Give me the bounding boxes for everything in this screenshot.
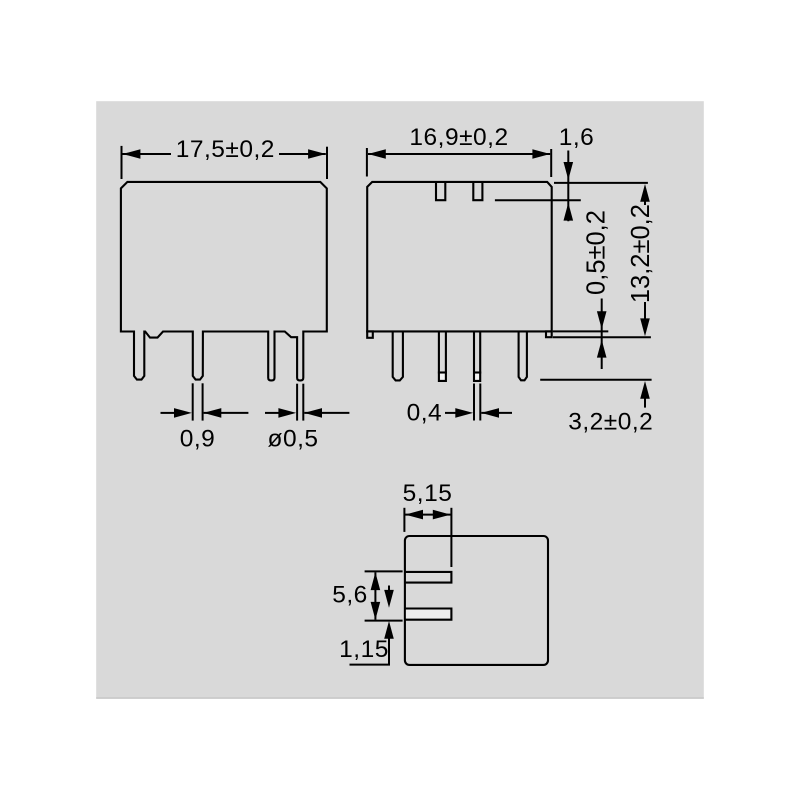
dimension 17,5±0,2 dimension line with arrows [123, 153, 172, 155]
svg-text:0,4: 0,4 [407, 400, 443, 427]
dimension 0,9 arrows and lines [161, 412, 176, 414]
body bottom reference line A extended right [553, 330, 609, 332]
side view pin 3 (flat tip with coin line) [475, 374, 479, 380]
side view left mounting foot [367, 331, 373, 337]
dimension 17,5±0,2 extension line left [121, 146, 123, 179]
side view relay body outline [367, 182, 552, 332]
side view right mounting foot [546, 331, 552, 337]
bottom view slot 2 (with light reflection) [406, 610, 450, 619]
dimension 16,9±0,2 extension line right [550, 149, 552, 177]
dimension 5,6 dimension line with arrows [374, 572, 376, 619]
svg-text:16,9±0,2: 16,9±0,2 [409, 124, 508, 151]
front view relay body outline [121, 182, 327, 381]
svg-text:0,5±0,2: 0,5±0,2 [583, 210, 611, 295]
side view top tab 2 [473, 182, 482, 200]
dimension 0,5±0,2 lower arrow pointing up to line B [597, 340, 607, 358]
tab bottom reference line [495, 199, 581, 201]
pin end reference line C extended right [540, 379, 651, 381]
dimension 1,6 lower arrow pointing up to tab bottom line [564, 203, 574, 221]
svg-text:1,6: 1,6 [559, 124, 595, 151]
bottom view body outline [405, 536, 548, 665]
pin thickness 0,4 extension lines [473, 384, 475, 421]
dimension 1,15 lower arrow pointing up to slot 2 bottom [384, 621, 394, 639]
dimension 1,15 leader line [350, 664, 391, 666]
standoff bottom reference line B extended right [553, 336, 651, 338]
svg-text:13,2±0,2: 13,2±0,2 [627, 204, 655, 303]
svg-text:5,6: 5,6 [332, 582, 368, 609]
svg-text:1,15: 1,15 [339, 636, 389, 663]
dimension 17,5±0,2 extension line right [326, 147, 328, 179]
dimension 1,15 upper arrow pointing down to slot 2 top [388, 586, 390, 593]
side view pin 1 (chamfered tip) [393, 331, 403, 380]
dimension 0,4 arrows and lines [445, 412, 458, 414]
dimension 1,6 upper arrow pointing down to top face [567, 151, 569, 222]
pin diameter ø0,5 extension lines [296, 384, 298, 421]
side view pin 2 (flat tip with coin line) [440, 374, 445, 380]
pin width 0,9 extension lines [192, 383, 194, 420]
svg-text:0,9: 0,9 [180, 425, 216, 452]
top face reference line extended right [554, 182, 648, 184]
bottom view slot 1 [405, 572, 452, 583]
dimension 5,6 extension lines [365, 570, 403, 572]
svg-text:17,5±0,2: 17,5±0,2 [176, 136, 275, 163]
dimension 16,9±0,2 dimension line with arrows [368, 153, 550, 155]
gray drawing background panel [96, 101, 704, 699]
svg-text:3,2±0,2: 3,2±0,2 [568, 409, 653, 436]
side view pin 4 (chamfered tip) [519, 331, 527, 380]
dimension 16,9±0,2 extension line left [366, 148, 368, 177]
svg-text:ø0,5: ø0,5 [267, 425, 318, 452]
dimension 13,2±0,2 upper arrow pointing up to top line [640, 184, 650, 202]
svg-text:5,15: 5,15 [403, 480, 453, 507]
side view top tab 1 [436, 182, 445, 200]
dimension 5,15 dimension line with arrows [405, 514, 451, 516]
dimension 3,2±0,2 arrow pointing up to line C [640, 381, 650, 399]
dimension 5,15 extension lines [403, 508, 405, 532]
dimension 13,2±0,2 lower arrow pointing down to line B [644, 302, 646, 321]
dimension 0,5±0,2 upper arrow pointing down to line A [601, 299, 603, 370]
dimension ø0,5 arrows and lines [265, 412, 279, 414]
